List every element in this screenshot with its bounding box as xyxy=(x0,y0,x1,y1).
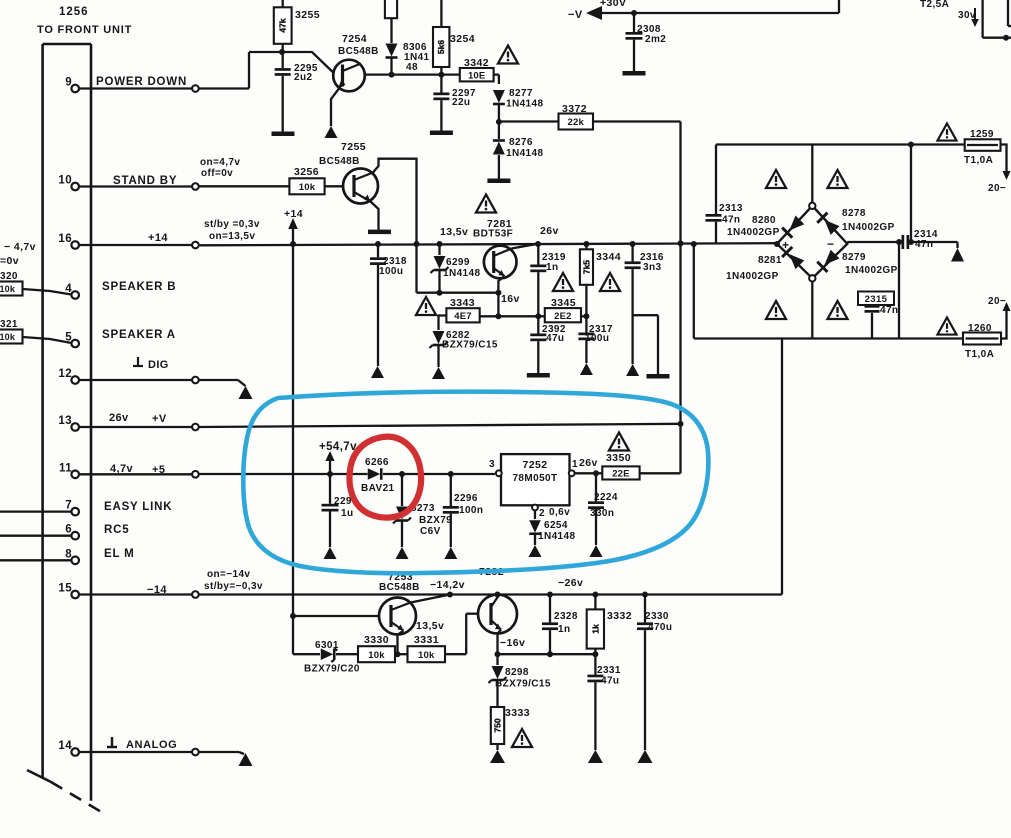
svg-text:2330: 2330 xyxy=(645,611,669,622)
svg-text:+14: +14 xyxy=(284,208,303,220)
svg-text:2u2: 2u2 xyxy=(294,72,312,83)
svg-text:3345: 3345 xyxy=(551,297,576,309)
svg-text:−26v: −26v xyxy=(558,577,583,589)
svg-text:BDT53F: BDT53F xyxy=(473,229,513,240)
svg-text:3330: 3330 xyxy=(364,634,389,646)
svg-text:EL M: EL M xyxy=(104,548,134,560)
svg-text:14: 14 xyxy=(58,740,72,752)
svg-text:+30V: +30V xyxy=(600,0,626,9)
svg-text:0,6v: 0,6v xyxy=(549,507,570,518)
svg-text:SPEAKER B: SPEAKER B xyxy=(102,281,176,293)
svg-text:8281: 8281 xyxy=(758,255,782,266)
svg-text:−14,2v: −14,2v xyxy=(430,579,465,591)
svg-text:st/by=−0,3v: st/by=−0,3v xyxy=(204,581,263,592)
svg-text:EASY LINK: EASY LINK xyxy=(104,501,172,513)
svg-text:8278: 8278 xyxy=(842,208,866,219)
svg-text:3: 3 xyxy=(489,459,495,470)
svg-text:DIG: DIG xyxy=(148,359,169,371)
svg-text:st/by =0,3v: st/by =0,3v xyxy=(204,219,260,230)
svg-text:7255: 7255 xyxy=(341,141,366,153)
svg-text:on=−14v: on=−14v xyxy=(207,569,250,580)
svg-text:BZX79/C20: BZX79/C20 xyxy=(304,664,360,675)
svg-text:TO FRONT UNIT: TO FRONT UNIT xyxy=(37,24,132,36)
svg-text:2m2: 2m2 xyxy=(645,34,666,45)
svg-text:2315: 2315 xyxy=(865,294,888,305)
svg-text:1k: 1k xyxy=(590,624,600,634)
svg-text:2328: 2328 xyxy=(554,611,578,622)
svg-text:T2,5A: T2,5A xyxy=(920,0,949,10)
svg-text:3344: 3344 xyxy=(596,251,621,263)
svg-text:6266: 6266 xyxy=(365,457,389,468)
svg-text:4E7: 4E7 xyxy=(454,311,472,322)
svg-text:26v: 26v xyxy=(109,412,129,424)
svg-text:7252: 7252 xyxy=(523,459,548,471)
svg-text:47n: 47n xyxy=(722,215,740,226)
svg-text:9: 9 xyxy=(65,77,72,89)
svg-text:3256: 3256 xyxy=(294,166,319,178)
svg-text:2313: 2313 xyxy=(719,203,743,214)
svg-text:T1,0A: T1,0A xyxy=(965,349,994,360)
svg-text:−: − xyxy=(827,237,834,251)
svg-text:20−: 20− xyxy=(988,183,1006,194)
svg-text:1N4002GP: 1N4002GP xyxy=(727,227,780,238)
svg-text:BZX79/C15: BZX79/C15 xyxy=(442,340,498,351)
svg-text:48: 48 xyxy=(406,62,418,73)
svg-text:1N4002GP: 1N4002GP xyxy=(845,265,898,276)
svg-text:BAV21: BAV21 xyxy=(361,483,395,494)
svg-text:100n: 100n xyxy=(459,505,483,516)
svg-text:RC5: RC5 xyxy=(104,524,129,536)
svg-text:on=13,5v: on=13,5v xyxy=(209,231,255,242)
svg-text:26v: 26v xyxy=(540,225,559,237)
svg-text:STAND BY: STAND BY xyxy=(113,175,177,187)
svg-text:7k5: 7k5 xyxy=(581,260,591,274)
svg-text:1: 1 xyxy=(572,459,578,470)
svg-text:1n: 1n xyxy=(558,624,570,635)
svg-text:7: 7 xyxy=(65,500,72,512)
svg-text:20−: 20− xyxy=(988,296,1006,307)
svg-text:3332: 3332 xyxy=(607,610,632,622)
svg-text:13,5v: 13,5v xyxy=(440,226,468,238)
svg-text:3255: 3255 xyxy=(295,9,320,21)
svg-text:2331: 2331 xyxy=(597,665,621,676)
svg-text:47n: 47n xyxy=(880,305,898,316)
svg-text:15: 15 xyxy=(58,583,72,595)
svg-text:470u: 470u xyxy=(648,622,672,633)
svg-text:1N4148: 1N4148 xyxy=(506,148,543,159)
svg-text:22u: 22u xyxy=(452,97,470,108)
svg-text:12: 12 xyxy=(58,368,72,380)
svg-text:8: 8 xyxy=(65,548,72,560)
svg-text:BC548B: BC548B xyxy=(379,582,420,593)
svg-text:78M050T: 78M050T xyxy=(512,473,557,484)
svg-text:47u: 47u xyxy=(546,333,564,344)
svg-text:1n: 1n xyxy=(546,262,558,273)
svg-text:6299: 6299 xyxy=(446,257,470,268)
svg-text:10k: 10k xyxy=(0,284,16,294)
svg-text:10k: 10k xyxy=(299,182,316,193)
svg-text:10: 10 xyxy=(58,175,72,187)
svg-text:8276: 8276 xyxy=(509,137,533,148)
svg-text:T1,0A: T1,0A xyxy=(964,155,993,166)
svg-text:8277: 8277 xyxy=(509,88,533,99)
svg-text:1256: 1256 xyxy=(59,6,89,18)
svg-text:1N4002GP: 1N4002GP xyxy=(726,271,779,282)
svg-text:3372: 3372 xyxy=(562,103,587,115)
svg-text:1260: 1260 xyxy=(968,323,992,334)
svg-text:1N4148: 1N4148 xyxy=(506,99,543,110)
svg-text:26v: 26v xyxy=(579,457,598,469)
svg-text:+14: +14 xyxy=(148,232,168,244)
svg-text:2224: 2224 xyxy=(594,492,618,503)
svg-text:C6V: C6V xyxy=(420,526,441,537)
svg-text:2296: 2296 xyxy=(454,493,478,504)
svg-text:47n: 47n xyxy=(915,239,933,250)
svg-text:10k: 10k xyxy=(0,332,16,342)
svg-text:− 4,7v: − 4,7v xyxy=(4,241,36,253)
svg-text:3342: 3342 xyxy=(464,57,489,69)
svg-text:on=4,7v: on=4,7v xyxy=(200,157,240,168)
svg-text:11: 11 xyxy=(59,462,72,474)
svg-text:POWER DOWN: POWER DOWN xyxy=(96,76,187,88)
svg-text:3350: 3350 xyxy=(606,452,631,464)
svg-text:22E: 22E xyxy=(612,469,630,480)
svg-text:47k: 47k xyxy=(278,18,288,32)
svg-text:10k: 10k xyxy=(418,650,435,661)
svg-text:ANALOG: ANALOG xyxy=(126,739,177,751)
svg-text:330n: 330n xyxy=(590,508,614,519)
svg-text:6254: 6254 xyxy=(544,520,568,531)
svg-text:8280: 8280 xyxy=(752,215,776,226)
svg-text:1N4148: 1N4148 xyxy=(443,268,480,279)
svg-text:100u: 100u xyxy=(585,333,609,344)
svg-text:3n3: 3n3 xyxy=(643,262,661,273)
svg-text:1u: 1u xyxy=(341,508,353,519)
svg-text:8279: 8279 xyxy=(842,252,866,263)
svg-text:BC548B: BC548B xyxy=(338,46,379,57)
svg-text:2: 2 xyxy=(539,508,545,519)
svg-text:6301: 6301 xyxy=(315,640,339,651)
svg-text:1N4148: 1N4148 xyxy=(538,531,575,542)
svg-text:16v: 16v xyxy=(501,293,520,305)
svg-text:6: 6 xyxy=(65,524,72,536)
svg-text:+54,7v: +54,7v xyxy=(319,441,357,453)
svg-text:10k: 10k xyxy=(368,650,385,661)
svg-text:22k: 22k xyxy=(568,117,585,128)
svg-text:7254: 7254 xyxy=(342,33,367,45)
svg-text:3331: 3331 xyxy=(414,634,439,646)
svg-text:3343: 3343 xyxy=(450,297,475,309)
svg-text:320: 320 xyxy=(0,271,18,282)
svg-text:BZX79: BZX79 xyxy=(419,515,452,526)
svg-text:47u: 47u xyxy=(601,676,619,687)
svg-text:10E: 10E xyxy=(468,70,486,81)
svg-text:SPEAKER A: SPEAKER A xyxy=(102,329,176,341)
svg-text:3254: 3254 xyxy=(450,33,475,45)
svg-text:2E2: 2E2 xyxy=(554,311,572,322)
svg-text:13: 13 xyxy=(58,415,72,427)
svg-text:3333: 3333 xyxy=(505,707,530,719)
svg-text:1N4002GP: 1N4002GP xyxy=(842,222,895,233)
svg-text:+V: +V xyxy=(152,413,167,425)
svg-text:8298: 8298 xyxy=(505,667,529,678)
svg-text:−16v: −16v xyxy=(500,637,525,649)
svg-text:321: 321 xyxy=(0,319,18,330)
svg-text:16: 16 xyxy=(58,233,72,245)
svg-text:−V: −V xyxy=(568,9,583,21)
svg-text:BC548B: BC548B xyxy=(319,156,360,167)
svg-text:BZX79/C15: BZX79/C15 xyxy=(495,679,551,690)
svg-text:1259: 1259 xyxy=(970,129,994,140)
svg-text:=0v: =0v xyxy=(0,255,19,267)
svg-text:750: 750 xyxy=(493,718,503,732)
svg-text:100u: 100u xyxy=(379,266,403,277)
svg-text:13,5v: 13,5v xyxy=(416,620,444,632)
svg-text:5k6: 5k6 xyxy=(436,40,446,54)
svg-text:off=0v: off=0v xyxy=(201,168,233,179)
